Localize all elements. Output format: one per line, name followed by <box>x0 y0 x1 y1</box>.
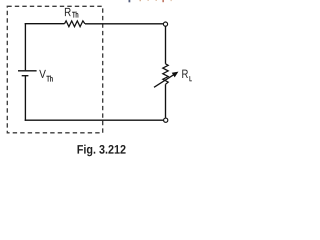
label R_Th main <box>65 8 71 16</box>
wire: bottom segment <box>25 119 164 121</box>
node terminal bottom <box>164 118 168 122</box>
thevenin source dashed box <box>7 6 102 133</box>
wire: left vertical upper <box>24 23 26 70</box>
arrow of variable load resistor <box>154 72 178 87</box>
label R_L sub <box>190 76 192 81</box>
cropped text fragment at top edge <box>129 0 172 2</box>
resistor R_L <box>163 64 168 85</box>
wire: top left segment <box>25 23 65 25</box>
wire: right vertical lower <box>165 84 167 118</box>
label V_Th main <box>39 70 46 78</box>
wire: left vertical lower <box>24 76 26 121</box>
wire: top right segment <box>85 23 163 25</box>
caption Fig. 3.212 <box>78 145 126 157</box>
label R_L main <box>182 70 188 78</box>
node terminal top <box>163 22 167 26</box>
label V_Th sub <box>47 76 53 82</box>
wire: right vertical upper <box>165 26 167 64</box>
battery V_Th short plate <box>22 75 29 77</box>
label R_Th sub <box>72 12 78 18</box>
battery V_Th long plate <box>18 70 37 72</box>
resistor R_Th <box>65 21 85 27</box>
